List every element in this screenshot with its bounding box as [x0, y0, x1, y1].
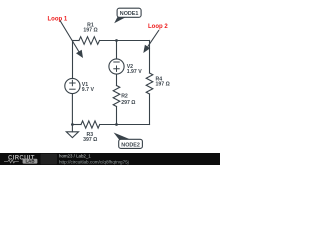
node NODE2 junction dot	[115, 123, 118, 126]
svg-text:9.7 V: 9.7 V	[82, 87, 95, 93]
wire top left to R1	[73, 40, 80, 42]
wire middle node1 down to V2	[116, 41, 118, 60]
voltage source V2	[109, 59, 124, 74]
annotation Loop 1 arrow line	[60, 21, 80, 55]
svg-text:Loop 2: Loop 2	[148, 24, 168, 30]
footer avatar box	[41, 154, 58, 164]
wire R2 to bottom node	[116, 107, 118, 125]
label V1	[82, 82, 95, 93]
wire V2 to R2	[116, 74, 118, 85]
svg-text:297 Ω: 297 Ω	[121, 100, 135, 106]
flag NODE2 tail	[114, 133, 130, 140]
resistor R3	[81, 121, 100, 128]
V2 minus sign	[113, 61, 119, 63]
annotation Loop 1 arrowhead	[76, 50, 83, 58]
wire right side down to R4	[149, 41, 151, 74]
svg-text:LAB: LAB	[25, 159, 34, 164]
node NODE1 junction dot	[115, 39, 118, 42]
annotation Loop 2 arrowhead	[143, 45, 150, 53]
flag NODE2 bubble	[119, 139, 143, 148]
ground junction dot	[71, 123, 74, 126]
label R4	[156, 76, 170, 87]
wire R1 to node1	[100, 40, 117, 42]
resistor R1	[79, 37, 100, 45]
svg-text:NODE2: NODE2	[121, 142, 140, 148]
resistor R2	[113, 86, 120, 107]
voltage source V1	[65, 78, 80, 93]
wire left side down to V1	[72, 41, 74, 79]
footer logo squiggle	[4, 160, 19, 163]
flag NODE1 bubble	[117, 8, 141, 17]
wire bottom junction to R3	[72, 124, 81, 126]
svg-text:397 Ω: 397 Ω	[83, 137, 97, 143]
wire node1 to top-right corner	[117, 40, 150, 42]
V1 minus sign	[69, 88, 75, 90]
label R2	[121, 94, 135, 107]
svg-text:197 Ω: 197 Ω	[83, 28, 97, 34]
flag NODE1 tail	[114, 17, 125, 23]
svg-text:http://circuitlab.com/c/q8fhqt: http://circuitlab.com/c/q8fhqtrvg75j	[59, 159, 129, 164]
footer bar	[0, 153, 220, 165]
wire bottom node to bottom-right corner	[117, 124, 150, 126]
wire R3 to bottom node	[100, 124, 117, 126]
resistor R4	[146, 73, 153, 94]
svg-text:R2: R2	[121, 94, 128, 100]
V1 plus sign	[69, 62, 120, 89]
svg-text:NODE1: NODE1	[120, 11, 139, 17]
label V2	[127, 64, 143, 75]
ground stub	[71, 125, 73, 132]
wire R4 to bottom-right corner	[149, 94, 151, 125]
annotation Loop 2 arrow line	[148, 30, 159, 47]
wire V1 to bottom junction	[71, 94, 73, 125]
label R3	[83, 132, 97, 143]
svg-text:197 Ω: 197 Ω	[156, 82, 170, 88]
ground triangle	[66, 132, 78, 138]
footer logo LAB box	[23, 159, 38, 164]
V2 plus sign	[113, 66, 119, 72]
svg-text:1.97 V: 1.97 V	[127, 69, 143, 75]
svg-text:Loop 1: Loop 1	[48, 16, 68, 22]
label R1	[83, 22, 97, 33]
svg-text:hom23 / Lab2_1: hom23 / Lab2_1	[59, 154, 91, 159]
